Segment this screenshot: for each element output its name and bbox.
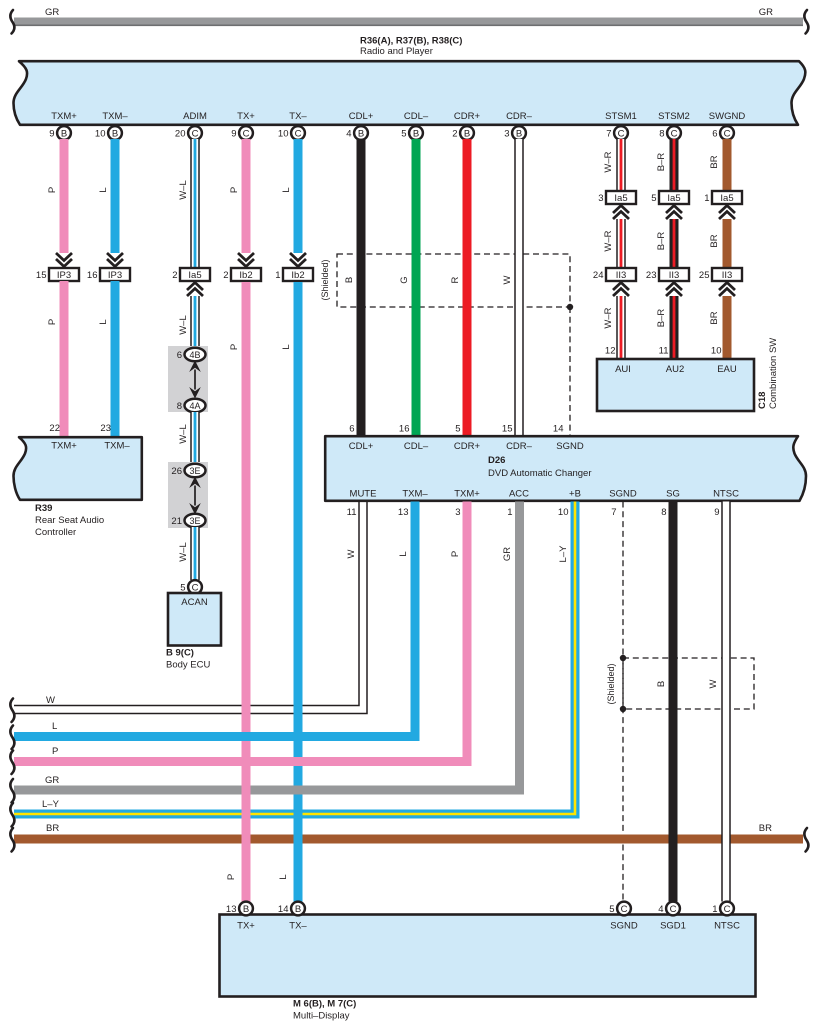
svg-text:NTSC: NTSC xyxy=(714,921,740,932)
svg-text:L: L xyxy=(52,721,57,732)
junction arrows into II3 (BR) xyxy=(719,283,735,297)
svg-text:CDL–: CDL– xyxy=(404,111,429,122)
svg-text:22: 22 xyxy=(49,423,60,434)
svg-text:3E: 3E xyxy=(189,516,200,526)
wire BR (Ia5 to connector II3) xyxy=(723,219,732,268)
svg-text:MUTE: MUTE xyxy=(350,489,377,500)
svg-text:TX+: TX+ xyxy=(237,111,255,122)
connector II3 pin 24 xyxy=(593,268,636,281)
svg-text:(Shielded): (Shielded) xyxy=(606,663,616,704)
connector 3E pin 21 xyxy=(171,514,205,528)
svg-text:TXM+: TXM+ xyxy=(454,489,480,500)
svg-text:G: G xyxy=(399,276,410,283)
svg-text:DVD Automatic Changer: DVD Automatic Changer xyxy=(488,468,592,479)
svg-text:2: 2 xyxy=(172,270,177,281)
svg-text:L: L xyxy=(281,187,292,192)
svg-text:W–R: W–R xyxy=(603,151,614,172)
svg-text:C: C xyxy=(243,129,250,140)
svg-text:7: 7 xyxy=(611,507,616,518)
svg-text:5: 5 xyxy=(651,193,656,204)
junction arrows into II3 (B–R) xyxy=(666,283,682,297)
svg-text:11: 11 xyxy=(659,346,669,357)
break symbol BR right xyxy=(804,828,808,852)
svg-text:II3: II3 xyxy=(616,270,627,281)
wire shield drain SGND (DVD changer pin 7 to multi-display pin 5) xyxy=(622,502,624,902)
pin 9 (B) of radio xyxy=(49,126,71,140)
pin 4 (B) of radio xyxy=(346,126,368,140)
svg-text:AU2: AU2 xyxy=(666,364,684,375)
break symbol W left xyxy=(10,699,14,723)
wire R (radio CDR+ pin 2 to DVD changer pin 5) xyxy=(463,139,472,436)
svg-text:W–L: W–L xyxy=(178,424,189,444)
wire L (radio TX- pin 10 to connector Ib2) xyxy=(294,139,303,253)
svg-text:3: 3 xyxy=(504,129,509,140)
svg-text:SGND: SGND xyxy=(556,441,584,452)
svg-text:CDL+: CDL+ xyxy=(349,111,374,122)
svg-text:Combination SW: Combination SW xyxy=(768,338,779,409)
svg-text:4B: 4B xyxy=(189,350,200,360)
svg-text:26: 26 xyxy=(171,466,182,477)
svg-text:TX–: TX– xyxy=(289,921,307,932)
junction arrows into Ia5 (B–R) xyxy=(666,206,682,220)
svg-text:R: R xyxy=(450,276,461,283)
svg-text:5: 5 xyxy=(609,904,614,915)
svg-text:Ia5: Ia5 xyxy=(667,193,680,204)
svg-text:SGND: SGND xyxy=(609,489,637,500)
svg-text:B: B xyxy=(295,904,301,915)
break symbol GR left xyxy=(10,10,14,34)
pin 10 (B) of radio xyxy=(95,126,122,140)
svg-text:Ia5: Ia5 xyxy=(188,270,201,281)
junction arrows into Ia5 (W–R) xyxy=(613,206,629,220)
connector Ib2 pin 2 xyxy=(223,268,261,281)
svg-text:10: 10 xyxy=(95,129,106,140)
svg-text:B: B xyxy=(112,129,118,140)
wire L (IP3 to R39 pin 23) xyxy=(111,281,120,437)
svg-text:BR: BR xyxy=(709,311,720,324)
break symbol P left xyxy=(10,751,14,775)
svg-text:TXM–: TXM– xyxy=(102,111,128,122)
svg-text:3: 3 xyxy=(598,193,603,204)
svg-text:L: L xyxy=(98,319,109,324)
svg-text:D26: D26 xyxy=(488,455,505,466)
svg-text:10: 10 xyxy=(558,507,569,518)
svg-text:B: B xyxy=(243,904,249,915)
node shield junction top xyxy=(620,655,626,661)
svg-text:C: C xyxy=(621,904,628,915)
arrow pair between 4B and 4A xyxy=(189,361,201,399)
svg-text:TXM+: TXM+ xyxy=(51,111,77,122)
svg-text:SWGND: SWGND xyxy=(709,111,746,122)
pin 5 (B) of radio xyxy=(401,126,423,140)
svg-text:BR: BR xyxy=(709,155,720,168)
svg-text:C: C xyxy=(295,129,302,140)
svg-text:W–L: W–L xyxy=(178,542,189,562)
shield box around CD lines xyxy=(337,254,570,307)
svg-text:L–Y: L–Y xyxy=(42,799,60,810)
svg-text:IP3: IP3 xyxy=(57,270,71,281)
wire W-L (radio ADIM pin 20 to connector Ia5) xyxy=(191,139,199,268)
svg-text:B–R: B–R xyxy=(656,309,667,328)
wire BR (radio to connector Ia5) xyxy=(723,139,732,191)
svg-text:23: 23 xyxy=(100,423,111,434)
svg-text:24: 24 xyxy=(593,270,604,281)
svg-text:6: 6 xyxy=(349,424,354,435)
svg-text:IP3: IP3 xyxy=(108,270,122,281)
svg-text:W–R: W–R xyxy=(603,307,614,328)
svg-text:W: W xyxy=(346,549,357,558)
svg-text:P: P xyxy=(52,746,58,757)
pin 9 (C) of radio xyxy=(231,126,253,140)
component D26 DVD Automatic Changer (box) xyxy=(325,436,806,501)
svg-text:13: 13 xyxy=(398,507,409,518)
break symbol L left xyxy=(10,726,14,750)
wire B–R (II3 to combination switch pin 11) xyxy=(670,296,679,359)
junction arrows into IP3 (TXM+) xyxy=(56,253,72,267)
svg-text:6: 6 xyxy=(712,129,717,140)
svg-text:9: 9 xyxy=(231,129,236,140)
svg-text:15: 15 xyxy=(502,424,513,435)
component M6/M7 Multi-Display (box) xyxy=(220,915,756,997)
wire P (radio TXM+ pin 9 to connector IP3) xyxy=(60,139,69,253)
node shield junction bottom xyxy=(620,706,626,712)
svg-text:C: C xyxy=(671,129,678,140)
svg-text:STSM2: STSM2 xyxy=(658,111,690,122)
svg-text:M 6(B), M 7(C): M 6(B), M 7(C) xyxy=(293,999,356,1010)
svg-text:TX+: TX+ xyxy=(237,921,255,932)
svg-text:B 9(C): B 9(C) xyxy=(166,648,194,659)
junction arrows into II3 (W–R) xyxy=(613,283,629,297)
svg-text:12: 12 xyxy=(605,346,616,357)
svg-text:II3: II3 xyxy=(669,270,680,281)
svg-text:16: 16 xyxy=(399,424,410,435)
svg-text:CDL–: CDL– xyxy=(404,441,429,452)
svg-text:B: B xyxy=(516,129,522,140)
svg-text:W: W xyxy=(708,679,719,688)
svg-text:TX–: TX– xyxy=(289,111,307,122)
svg-text:9: 9 xyxy=(714,507,719,518)
svg-text:SGD1: SGD1 xyxy=(660,921,686,932)
connector II3 pin 25 xyxy=(699,268,742,281)
svg-text:1: 1 xyxy=(704,193,709,204)
junction arrows into Ia5 (BR) xyxy=(719,206,735,220)
connector IP3 pin 15 xyxy=(36,268,79,281)
break symbol L-Y left xyxy=(10,803,14,827)
svg-text:GR: GR xyxy=(45,7,59,18)
connector Ia5 pin 2 (ADIM) xyxy=(172,268,210,281)
svg-text:11: 11 xyxy=(347,507,357,518)
wire W–R (radio to connector Ia5) xyxy=(617,139,625,191)
connector II3 pin 23 xyxy=(646,268,689,281)
svg-text:C: C xyxy=(670,904,677,915)
junction arrows into Ia5 (ADIM) xyxy=(187,283,203,297)
svg-text:L: L xyxy=(281,344,292,349)
svg-text:Ib2: Ib2 xyxy=(291,270,304,281)
svg-text:CDR+: CDR+ xyxy=(454,441,481,452)
svg-text:B–R: B–R xyxy=(656,153,667,172)
svg-text:7: 7 xyxy=(606,129,611,140)
svg-text:Multi–Display: Multi–Display xyxy=(293,1011,350,1022)
component R39 Rear Seat Audio Controller (box) xyxy=(14,437,142,500)
svg-text:20: 20 xyxy=(175,129,186,140)
pin 3 (B) of radio xyxy=(504,126,526,140)
wire W-L (Ia5 to connector 4B) xyxy=(191,296,199,348)
wire W (DVD changer NTSC pin 9 to multi-display NTSC pin 1) xyxy=(722,502,730,902)
svg-text:W: W xyxy=(46,695,55,706)
svg-text:GR: GR xyxy=(502,547,513,561)
svg-text:2: 2 xyxy=(452,129,457,140)
wire P (radio TX+ pin 9 to connector Ib2) xyxy=(242,139,251,253)
svg-text:BR: BR xyxy=(46,823,59,834)
connector block 4B/4A (shaded) xyxy=(168,346,208,412)
svg-text:(Shielded): (Shielded) xyxy=(320,259,330,300)
svg-text:P: P xyxy=(47,319,58,325)
wire shield drain (to DVD changer SGND pin 14) xyxy=(569,307,571,436)
svg-text:1: 1 xyxy=(275,270,280,281)
pin 13 (B) of multi-display xyxy=(226,902,253,916)
svg-text:Ib2: Ib2 xyxy=(239,270,252,281)
pin 20 (C) of radio xyxy=(175,126,202,140)
connector Ib2 pin 1 xyxy=(275,268,313,281)
svg-text:SGND: SGND xyxy=(610,921,638,932)
svg-text:21: 21 xyxy=(171,516,182,527)
wire W (DVD changer MUTE pin 11, turns left) xyxy=(14,502,367,714)
wire L (radio TXM- pin 10 to connector IP3) xyxy=(111,139,120,253)
wire BR (bottom bus) xyxy=(14,835,803,844)
wire L (DVD changer TXM- pin 13, turns left) xyxy=(14,502,415,737)
svg-text:Ia5: Ia5 xyxy=(720,193,733,204)
svg-text:4A: 4A xyxy=(189,401,200,411)
break symbol BR left xyxy=(10,828,14,852)
svg-text:W–L: W–L xyxy=(178,315,189,335)
svg-text:+B: +B xyxy=(569,489,581,500)
connector Ia5 pin 5 xyxy=(651,191,689,204)
svg-text:15: 15 xyxy=(36,270,47,281)
connector Ia5 pin 3 xyxy=(598,191,636,204)
svg-text:P: P xyxy=(229,344,240,350)
svg-text:L–Y: L–Y xyxy=(558,545,569,563)
wire W-L (3E to Body ECU pin 5) xyxy=(191,527,199,580)
wire L (Ib2 to multi-display TX- pin 14) xyxy=(294,282,303,902)
break symbol GR right xyxy=(804,10,808,34)
wire B (radio CDL+ pin 4 to DVD changer pin 6) xyxy=(357,139,366,436)
junction arrows into Ib2 (TX-) xyxy=(290,253,306,267)
svg-text:Ia5: Ia5 xyxy=(614,193,627,204)
connector block 3E/3E (shaded) xyxy=(168,462,208,528)
svg-text:4: 4 xyxy=(346,129,351,140)
wire G (radio CDL- pin 5 to DVD changer pin 16) xyxy=(412,139,421,436)
svg-text:14: 14 xyxy=(278,904,289,915)
svg-text:B: B xyxy=(464,129,470,140)
node shield drain junction xyxy=(567,304,573,310)
pin 5 (C) of Body ECU xyxy=(180,580,202,594)
svg-text:1: 1 xyxy=(507,507,512,518)
svg-text:P: P xyxy=(229,187,240,193)
svg-text:GR: GR xyxy=(759,7,773,18)
connector 4A pin 8 xyxy=(177,399,206,413)
svg-text:GR: GR xyxy=(45,775,59,786)
svg-text:TXM+: TXM+ xyxy=(51,441,77,452)
svg-text:EAU: EAU xyxy=(717,364,737,375)
svg-text:NTSC: NTSC xyxy=(713,489,739,500)
wire W-L (4A to connector 3E) xyxy=(191,412,199,464)
svg-text:C: C xyxy=(618,129,625,140)
component R36/R37/R38 Radio and Player (box) xyxy=(14,61,806,125)
pin 2 (B) of radio xyxy=(452,126,474,140)
svg-text:Radio and Player: Radio and Player xyxy=(360,46,433,57)
wire BR (II3 to combination switch pin 10) xyxy=(723,296,732,359)
svg-text:B: B xyxy=(413,129,419,140)
svg-text:R36(A), R37(B), R38(C): R36(A), R37(B), R38(C) xyxy=(360,36,462,47)
wire B–R (Ia5 to connector II3) xyxy=(670,219,679,268)
svg-text:B–R: B–R xyxy=(656,232,667,251)
svg-text:8: 8 xyxy=(659,129,664,140)
svg-text:CDR–: CDR– xyxy=(506,441,533,452)
svg-text:CDL+: CDL+ xyxy=(349,441,374,452)
wire W (radio CDR- pin 3 to DVD changer pin 15) xyxy=(515,139,523,436)
pin 6 (C) of radio xyxy=(712,126,734,140)
svg-text:ACAN: ACAN xyxy=(181,597,208,608)
svg-text:TXM–: TXM– xyxy=(104,441,130,452)
svg-text:L: L xyxy=(278,874,289,879)
svg-text:W–R: W–R xyxy=(603,230,614,251)
svg-text:Body ECU: Body ECU xyxy=(166,660,210,671)
svg-text:W–L: W–L xyxy=(178,180,189,200)
svg-text:Controller: Controller xyxy=(35,527,76,538)
arrow pair between 3E and 3E xyxy=(189,477,201,515)
svg-text:5: 5 xyxy=(455,424,460,435)
svg-text:P: P xyxy=(47,187,58,193)
wire P (Ib2 to multi-display TX+ pin 13) xyxy=(242,282,251,902)
svg-text:23: 23 xyxy=(646,270,657,281)
svg-text:R39: R39 xyxy=(35,503,52,514)
pin 4 (C) of multi-display xyxy=(658,902,680,916)
svg-text:5: 5 xyxy=(401,129,406,140)
svg-text:16: 16 xyxy=(87,270,98,281)
wire B (DVD changer SG pin 8 to multi-display SGD1 pin 4) xyxy=(669,502,678,902)
component C18 Combination SW (box) xyxy=(597,359,754,411)
svg-text:C18: C18 xyxy=(757,392,768,409)
pin 5 (C) of multi-display xyxy=(609,902,631,916)
wire GR (top, shield/ground bus) xyxy=(14,18,803,27)
pin 1 (C) of multi-display xyxy=(712,902,734,916)
svg-text:P: P xyxy=(450,551,461,557)
svg-text:L: L xyxy=(398,551,409,556)
svg-text:1: 1 xyxy=(712,904,717,915)
svg-text:W: W xyxy=(502,275,513,284)
svg-text:B: B xyxy=(358,129,364,140)
svg-text:CDR+: CDR+ xyxy=(454,111,481,122)
svg-text:4: 4 xyxy=(658,904,663,915)
component B 9(C) Body ECU (box) xyxy=(168,593,221,646)
connector 3E pin 26 xyxy=(171,464,205,478)
svg-text:6: 6 xyxy=(177,350,182,361)
svg-text:3: 3 xyxy=(455,507,460,518)
wire B–R (radio to connector Ia5) xyxy=(670,139,679,191)
connector Ia5 pin 1 xyxy=(704,191,742,204)
svg-text:BR: BR xyxy=(709,234,720,247)
svg-text:II3: II3 xyxy=(722,270,733,281)
pin 14 (B) of multi-display xyxy=(278,902,305,916)
svg-text:AUI: AUI xyxy=(615,364,631,375)
break symbol GR left (lower) xyxy=(10,779,14,803)
svg-text:Rear Seat Audio: Rear Seat Audio xyxy=(35,515,104,526)
svg-text:B: B xyxy=(61,129,67,140)
wire W–R (II3 to combination switch pin 12) xyxy=(617,296,625,359)
svg-text:BR: BR xyxy=(759,823,772,834)
svg-text:25: 25 xyxy=(699,270,710,281)
wire W–R (Ia5 to connector II3) xyxy=(617,219,625,268)
svg-text:CDR–: CDR– xyxy=(506,111,533,122)
svg-text:C: C xyxy=(192,129,199,140)
svg-text:SG: SG xyxy=(666,489,680,500)
svg-text:C: C xyxy=(724,129,731,140)
svg-text:B: B xyxy=(656,681,667,687)
svg-text:ACC: ACC xyxy=(509,489,529,500)
wire P (IP3 to R39 pin 22) xyxy=(60,281,69,437)
svg-text:14: 14 xyxy=(553,424,564,435)
svg-text:3E: 3E xyxy=(189,466,200,476)
svg-text:ADIM: ADIM xyxy=(183,111,207,122)
svg-text:9: 9 xyxy=(49,129,54,140)
shield box around video lines xyxy=(623,658,754,709)
svg-text:B: B xyxy=(344,277,355,283)
wire GR (DVD changer ACC pin 1, turns left) xyxy=(14,502,520,791)
svg-text:P: P xyxy=(226,874,237,880)
svg-text:10: 10 xyxy=(711,346,722,357)
svg-text:8: 8 xyxy=(177,401,182,412)
junction arrows into Ib2 (TX+) xyxy=(238,253,254,267)
wire P (DVD changer TXM+ pin 3, turns left) xyxy=(14,502,467,762)
svg-text:13: 13 xyxy=(226,904,237,915)
pin 8 (C) of radio xyxy=(659,126,681,140)
svg-text:2: 2 xyxy=(223,270,228,281)
svg-text:STSM1: STSM1 xyxy=(605,111,637,122)
junction arrows into IP3 (TXM-) xyxy=(107,253,123,267)
svg-text:8: 8 xyxy=(661,507,666,518)
connector 4B pin 6 xyxy=(177,348,206,362)
pin 7 (C) of radio xyxy=(606,126,628,140)
wire L-Y (DVD changer +B pin 10, turns left) xyxy=(14,502,575,815)
connector IP3 pin 16 xyxy=(87,268,130,281)
svg-text:10: 10 xyxy=(278,129,289,140)
svg-text:L: L xyxy=(98,187,109,192)
pin 10 (C) of radio xyxy=(278,126,305,140)
svg-text:TXM–: TXM– xyxy=(402,489,428,500)
svg-text:C: C xyxy=(724,904,731,915)
